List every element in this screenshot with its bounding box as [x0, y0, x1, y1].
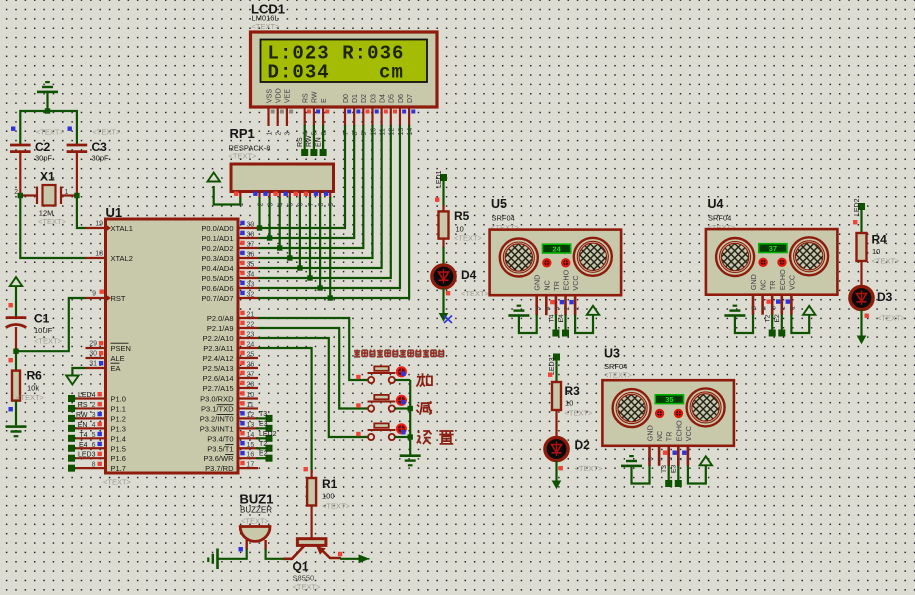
svg-text:2: 2 — [780, 306, 787, 310]
svg-text:11: 11 — [247, 402, 254, 409]
svg-text:P3.2/INT0: P3.2/INT0 — [200, 414, 234, 423]
svg-text:2: 2 — [276, 132, 283, 136]
svg-text:EA: EA — [111, 364, 121, 373]
svg-text:16: 16 — [247, 452, 255, 459]
pin P0.4/AD4 (35) — [238, 267, 258, 269]
button body — [368, 377, 395, 383]
svg-text:NC: NC — [655, 431, 664, 441]
pin P2.1/A9 (22) — [238, 327, 258, 329]
svg-text:GND: GND — [646, 425, 655, 441]
svg-text:10UF: 10UF — [34, 326, 53, 335]
svg-text:VCC: VCC — [571, 275, 580, 290]
node X1-pin2 junction — [18, 193, 23, 198]
srf04 body — [490, 230, 621, 296]
svg-text:D2: D2 — [575, 438, 591, 452]
svg-text:D2: D2 — [361, 94, 368, 103]
power down arrow — [66, 376, 78, 385]
svg-text:<TEXT>: <TEXT> — [252, 22, 281, 31]
pin P2.5/A13 (26) — [238, 367, 258, 369]
svg-text:T3: T3 — [661, 465, 668, 473]
svg-text:7: 7 — [308, 203, 315, 207]
wire XTAL1 net — [77, 196, 86, 229]
power VCC arrow — [10, 277, 22, 286]
svg-text:<TEXT>: <TEXT> — [34, 337, 63, 346]
wire net T2 — [256, 447, 266, 449]
pin P2.7/A15 (28) — [238, 387, 258, 389]
svg-text:RW: RW — [306, 135, 313, 147]
wire U4 ECHO net E2 — [781, 315, 783, 331]
svg-text:RP1: RP1 — [230, 126, 255, 141]
pin P2.2/A10 (23) — [238, 337, 258, 339]
pin P1.6 / net LED3 — [75, 457, 106, 459]
svg-text:32: 32 — [247, 292, 255, 299]
svg-text:P2.4/A12: P2.4/A12 — [203, 354, 234, 363]
svg-text:ALE: ALE — [111, 354, 125, 363]
svg-text:P0.3/AD3: P0.3/AD3 — [201, 254, 233, 263]
terminal LED1 — [440, 174, 447, 181]
svg-text:1: 1 — [266, 132, 273, 136]
svg-text:E2: E2 — [774, 314, 781, 323]
wire P0.4 to D4 — [258, 125, 382, 268]
indicator leds — [656, 410, 663, 417]
wire — [442, 181, 444, 206]
svg-text:5: 5 — [92, 432, 96, 439]
respack pin 8 wire — [319, 192, 321, 198]
svg-text:8: 8 — [352, 132, 359, 136]
transducer right — [574, 238, 612, 276]
svg-text:2: 2 — [14, 189, 18, 196]
indicator leds — [760, 259, 767, 266]
pin P2.4/A12 (25) — [238, 357, 258, 359]
svg-text:D:034: D:034 — [268, 62, 330, 84]
svg-text:<TEXT>: <TEXT> — [877, 314, 906, 323]
svg-text:34: 34 — [247, 272, 255, 279]
wire U3 GND — [632, 466, 650, 484]
pin P2.3/A11 (24) — [238, 347, 258, 349]
svg-text:<TEXT>: <TEXT> — [461, 289, 490, 298]
svg-text:<TEXT>: <TEXT> — [92, 128, 121, 137]
svg-text:P1.2: P1.2 — [111, 414, 126, 423]
svg-text:5: 5 — [288, 203, 295, 207]
terminal down arrow — [857, 336, 867, 345]
svg-text:36: 36 — [247, 252, 255, 259]
pin P1.5 / net E4 — [75, 447, 106, 449]
svg-text:P2.6/A14: P2.6/A14 — [203, 374, 234, 383]
wire P2.1 to button2 — [258, 328, 368, 409]
display — [759, 244, 787, 253]
svg-text:<TEXT>: <TEXT> — [103, 478, 132, 487]
svg-text:4: 4 — [657, 457, 664, 461]
wire P0.5 to D5 — [258, 125, 391, 278]
wire U3 ECHO net E3 — [677, 466, 679, 481]
svg-text:2: 2 — [677, 457, 684, 461]
ground rotated — [207, 549, 219, 570]
node crystal-top junction — [45, 108, 50, 113]
ground — [6, 425, 27, 437]
resistor R3 — [552, 382, 561, 410]
svg-text:10: 10 — [370, 128, 377, 136]
pin XTAL1 — [86, 227, 106, 229]
svg-text:<TEXT>: <TEXT> — [322, 502, 351, 511]
svg-text:3: 3 — [554, 306, 561, 310]
svg-text:P2.2/A10: P2.2/A10 — [203, 334, 234, 343]
pin P0.3/AD3 (36) — [238, 257, 258, 259]
svg-text:33: 33 — [247, 282, 255, 289]
svg-text:35: 35 — [665, 395, 673, 404]
wire net E3 — [256, 427, 266, 429]
svg-text:P0.7/AD7: P0.7/AD7 — [201, 294, 233, 303]
node button3 junction — [408, 434, 413, 439]
terminal right arrow — [359, 554, 370, 563]
svg-text:R3: R3 — [565, 384, 581, 398]
svg-text:21: 21 — [247, 312, 255, 319]
svg-text:C2: C2 — [35, 140, 51, 154]
svg-text:D6: D6 — [398, 94, 405, 103]
svg-text:26: 26 — [247, 362, 255, 369]
svg-text:10: 10 — [872, 247, 880, 256]
svg-text:SRF04: SRF04 — [492, 214, 515, 223]
respack pin 1 wire to VCC — [239, 192, 241, 198]
wire P0.2 to D2 — [258, 125, 363, 248]
svg-text:E3: E3 — [259, 421, 268, 428]
wire — [20, 111, 77, 144]
svg-text:10: 10 — [456, 225, 464, 234]
node junction RP1-5 — [287, 255, 292, 260]
svg-text:4: 4 — [278, 203, 285, 207]
pin P3.5/T1 (15) — [238, 447, 258, 449]
svg-text:EN: EN — [315, 137, 322, 147]
pin P0.0/AD0 (39) — [238, 227, 258, 229]
led D3 — [850, 286, 873, 309]
node junction RP1-6 — [297, 265, 302, 270]
svg-text:P3.7/RD: P3.7/RD — [205, 464, 234, 473]
node junction RP1-8 — [317, 285, 322, 290]
svg-text:E2: E2 — [259, 451, 268, 458]
svg-text:4: 4 — [545, 306, 552, 310]
svg-text:VCC: VCC — [787, 275, 796, 290]
svg-text:5: 5 — [312, 132, 319, 136]
svg-text:8: 8 — [92, 462, 96, 469]
svg-text:14: 14 — [407, 128, 414, 136]
svg-text:4: 4 — [761, 306, 768, 310]
svg-text:T4: T4 — [548, 314, 555, 322]
svg-text:D5: D5 — [389, 94, 396, 103]
svg-text:E: E — [321, 98, 328, 103]
svg-text:9: 9 — [92, 291, 96, 298]
svg-text:TR: TR — [552, 281, 561, 291]
svg-text:18: 18 — [95, 251, 103, 258]
svg-text:12: 12 — [389, 128, 396, 136]
srf04 body — [706, 229, 838, 295]
wire P0.3 to D3 — [258, 125, 372, 258]
label jian (subtract) — [417, 401, 432, 414]
svg-text:RS: RS — [297, 137, 304, 147]
wire P0.0 to D0 — [258, 125, 345, 228]
respack pin 2 wire — [258, 192, 260, 198]
power arrow — [587, 306, 599, 315]
svg-text:5: 5 — [535, 306, 542, 310]
lcd screen — [261, 40, 428, 83]
wire — [860, 210, 862, 233]
svg-text:Q1: Q1 — [293, 560, 309, 574]
pin P0.7/AD7 (32) — [238, 297, 258, 299]
pin XTAL2 — [86, 257, 106, 259]
svg-text:P1.6: P1.6 — [111, 454, 126, 463]
svg-text:22: 22 — [247, 322, 255, 329]
svg-text:P0.1/AD1: P0.1/AD1 — [201, 234, 233, 243]
svg-text:<TEXT>: <TEXT> — [575, 464, 604, 473]
node junction RP1-4 — [277, 245, 282, 250]
sensor U3 SRF04 — [602, 380, 734, 466]
node junction RP1-7 — [307, 275, 312, 280]
svg-text:D3: D3 — [370, 94, 377, 103]
pin P1.4 / net T4 — [75, 437, 106, 439]
capacitor C2 — [10, 145, 31, 152]
svg-text:P3.0/RXD: P3.0/RXD — [200, 395, 234, 404]
pin RST — [86, 297, 106, 299]
svg-text:39: 39 — [247, 222, 255, 229]
svg-text:3: 3 — [770, 306, 777, 310]
label jia (add) — [417, 373, 432, 386]
svg-text:2: 2 — [564, 306, 571, 310]
svg-text:12: 12 — [247, 412, 255, 419]
svg-text:<TEXT>: <TEXT> — [293, 583, 322, 592]
ground — [724, 305, 745, 317]
svg-text:<TEXT>: <TEXT> — [565, 409, 594, 418]
svg-text:ECHO: ECHO — [674, 420, 683, 441]
svg-text:23: 23 — [247, 332, 255, 339]
wire Q1 emitter to terminal — [340, 558, 359, 560]
svg-text:4: 4 — [92, 422, 96, 429]
pin P3.3/INT1 (13) — [238, 427, 258, 429]
pin P1.2 / net RW — [75, 417, 106, 419]
svg-text:RST: RST — [111, 294, 126, 303]
svg-text:37: 37 — [769, 244, 777, 253]
svg-text:EN: EN — [78, 422, 88, 429]
node junction RP1-2 — [257, 225, 262, 230]
svg-text:LED2: LED2 — [259, 431, 277, 438]
wire P2.3 to R1 — [258, 348, 312, 473]
node C1-R6 junction — [13, 349, 18, 354]
wire button right — [395, 407, 411, 409]
wire RW stub — [313, 125, 315, 150]
node X1-pin1 junction — [74, 193, 79, 198]
svg-text:TR: TR — [768, 281, 777, 291]
svg-text:R1: R1 — [322, 477, 338, 491]
svg-text:30pF: 30pF — [92, 154, 110, 163]
svg-text:P1.4: P1.4 — [111, 434, 126, 443]
svg-text:38: 38 — [247, 232, 255, 239]
wire EA to power-down arrow — [72, 368, 85, 375]
svg-text:5: 5 — [648, 457, 655, 461]
svg-text:3: 3 — [667, 457, 674, 461]
svg-text:LED4: LED4 — [78, 392, 96, 399]
origin marker — [444, 316, 452, 324]
wire U4 GND — [735, 315, 753, 334]
wire P0.6 to D6 — [258, 125, 400, 288]
svg-text:TR: TR — [665, 432, 674, 442]
capacitor C1 polarized — [6, 316, 27, 319]
svg-text:P2.5/A13: P2.5/A13 — [203, 364, 234, 373]
svg-text:30pF: 30pF — [35, 154, 53, 163]
svg-text:<TEXT>: <TEXT> — [604, 371, 633, 380]
svg-text:C1: C1 — [34, 312, 50, 326]
svg-text:14: 14 — [247, 432, 255, 439]
svg-text:6: 6 — [321, 132, 328, 136]
svg-text:GND: GND — [749, 274, 758, 290]
svg-text:P1.1: P1.1 — [111, 404, 126, 413]
svg-text:<TEXT>: <TEXT> — [454, 234, 483, 243]
ground — [400, 454, 421, 466]
svg-text:1: 1 — [686, 457, 693, 461]
svg-text:U5: U5 — [491, 197, 507, 211]
wire U4 VCC — [791, 315, 809, 334]
svg-text:RS: RS — [303, 93, 310, 103]
svg-text:11: 11 — [379, 128, 386, 135]
pin P3.1/TXD (11) — [238, 407, 258, 409]
transducer left — [500, 239, 538, 277]
capacitor C3 — [67, 145, 88, 152]
wire — [860, 310, 862, 337]
svg-text:2: 2 — [257, 203, 264, 207]
svg-text:T2: T2 — [259, 441, 267, 448]
svg-text:6: 6 — [92, 442, 96, 449]
svg-text:U4: U4 — [708, 197, 724, 211]
svg-text:13: 13 — [398, 128, 405, 136]
svg-text:T2: T2 — [765, 314, 772, 322]
svg-text:cm: cm — [379, 62, 404, 84]
svg-text:S8550: S8550 — [293, 574, 315, 583]
wire net T3 — [256, 417, 266, 419]
svg-text:E4: E4 — [558, 314, 565, 323]
respack pin 9 wire — [329, 192, 331, 198]
node junction RP1-9 — [328, 295, 333, 300]
transducer right — [687, 388, 725, 426]
svg-text:E3: E3 — [671, 464, 678, 473]
pin P1.1 / net RS — [75, 407, 106, 409]
wire P0.7 to D7 — [258, 125, 409, 298]
svg-text:D7: D7 — [407, 94, 414, 103]
transducer left — [716, 238, 754, 276]
display — [655, 395, 683, 404]
pin P2.6/A14 (27) — [238, 377, 258, 379]
svg-text:19: 19 — [95, 221, 103, 228]
transducer right — [790, 237, 828, 275]
svg-text:D0: D0 — [343, 94, 350, 103]
svg-text:P3.3/INT1: P3.3/INT1 — [200, 424, 234, 433]
svg-text:1: 1 — [65, 189, 69, 196]
svg-text:3: 3 — [92, 412, 96, 419]
svg-text:15: 15 — [247, 442, 255, 449]
wire U3 VCC — [688, 466, 706, 484]
svg-text:27: 27 — [247, 372, 255, 379]
resistor R1 — [304, 467, 308, 471]
svg-text:BUZ1: BUZ1 — [240, 492, 274, 507]
svg-text:<TEXT>: <TEXT> — [872, 257, 901, 266]
svg-text:LED2: LED2 — [854, 198, 861, 216]
respack pin 3 wire — [269, 192, 271, 198]
svg-text:1: 1 — [573, 306, 580, 310]
svg-text:<TEXT>: <TEXT> — [241, 517, 270, 526]
svg-text:P1.3: P1.3 — [111, 424, 126, 433]
svg-text:C3: C3 — [92, 140, 108, 154]
respack pin 4 wire — [279, 192, 281, 198]
svg-text:LED3: LED3 — [549, 357, 556, 375]
svg-text:D1: D1 — [352, 94, 359, 103]
respack pin 6 wire — [299, 192, 301, 198]
svg-text:ECHO: ECHO — [778, 269, 787, 290]
svg-text:XTAL2: XTAL2 — [111, 254, 133, 263]
respack pin 5 wire — [289, 192, 291, 198]
svg-text:R5: R5 — [454, 209, 470, 223]
svg-text:37: 37 — [247, 242, 255, 249]
svg-text:P2.3/A11: P2.3/A11 — [203, 344, 233, 353]
svg-text:P0.4/AD4: P0.4/AD4 — [201, 264, 233, 273]
svg-text:P3.1/TXD: P3.1/TXD — [201, 404, 234, 413]
svg-text:31: 31 — [89, 361, 97, 368]
transducer left — [613, 389, 651, 427]
pin P2.0/A8 (21) — [238, 317, 258, 319]
pin P1.0 / net LED4 — [75, 397, 106, 399]
transistor Q1 S8550 — [297, 539, 326, 546]
button body — [368, 405, 395, 411]
svg-text:VCC: VCC — [684, 426, 693, 441]
label alarm title — [354, 350, 360, 357]
pin P3.7/RD (17) — [238, 467, 258, 469]
label shezhi (set) — [417, 430, 432, 444]
svg-text:P2.0/A8: P2.0/A8 — [207, 314, 234, 323]
svg-text:9: 9 — [361, 132, 368, 136]
svg-text:3: 3 — [285, 132, 292, 136]
terminal LED3 — [553, 354, 560, 361]
lcd LCD1 body — [251, 32, 438, 107]
buzzer BUZ1 body — [240, 527, 270, 542]
svg-text:P0.2/AD2: P0.2/AD2 — [201, 244, 233, 253]
resistor R4 — [857, 233, 867, 261]
svg-text:10: 10 — [247, 392, 255, 399]
svg-text:24: 24 — [552, 244, 561, 253]
button actuator marker — [397, 396, 406, 405]
pin P3.2/INT0 (12) — [238, 417, 258, 419]
pin P1.3 / net EN — [75, 427, 106, 429]
svg-text:RS: RS — [78, 402, 88, 409]
button body — [368, 434, 395, 440]
wire U5 TR net T4 — [555, 315, 557, 331]
svg-text:LED3: LED3 — [78, 452, 96, 459]
svg-text:35: 35 — [247, 262, 255, 269]
wire EN stub — [322, 125, 324, 150]
wire buttons common to ground — [409, 380, 411, 455]
wire U5 GND — [519, 315, 537, 334]
svg-text:13: 13 — [247, 422, 255, 429]
wire button right — [395, 379, 411, 381]
pin P3.6/WR (16) — [238, 457, 258, 459]
svg-text:P1.0: P1.0 — [111, 395, 126, 404]
svg-text:P0.6/AD6: P0.6/AD6 — [201, 284, 233, 293]
svg-text:T3: T3 — [259, 411, 267, 418]
pin P0.2/AD2 (37) — [238, 247, 258, 249]
buzzer legs — [247, 540, 266, 549]
svg-text:E4: E4 — [79, 442, 88, 449]
svg-text:<TEXT>: <TEXT> — [38, 217, 67, 226]
svg-text:4: 4 — [303, 132, 310, 136]
power arrow — [803, 306, 815, 315]
wire U3 TR net T3 — [668, 466, 670, 481]
indicator leds — [543, 259, 550, 266]
svg-text:GND: GND — [533, 275, 542, 291]
svg-text:25: 25 — [247, 352, 255, 359]
wire XTAL2 net — [20, 196, 85, 259]
